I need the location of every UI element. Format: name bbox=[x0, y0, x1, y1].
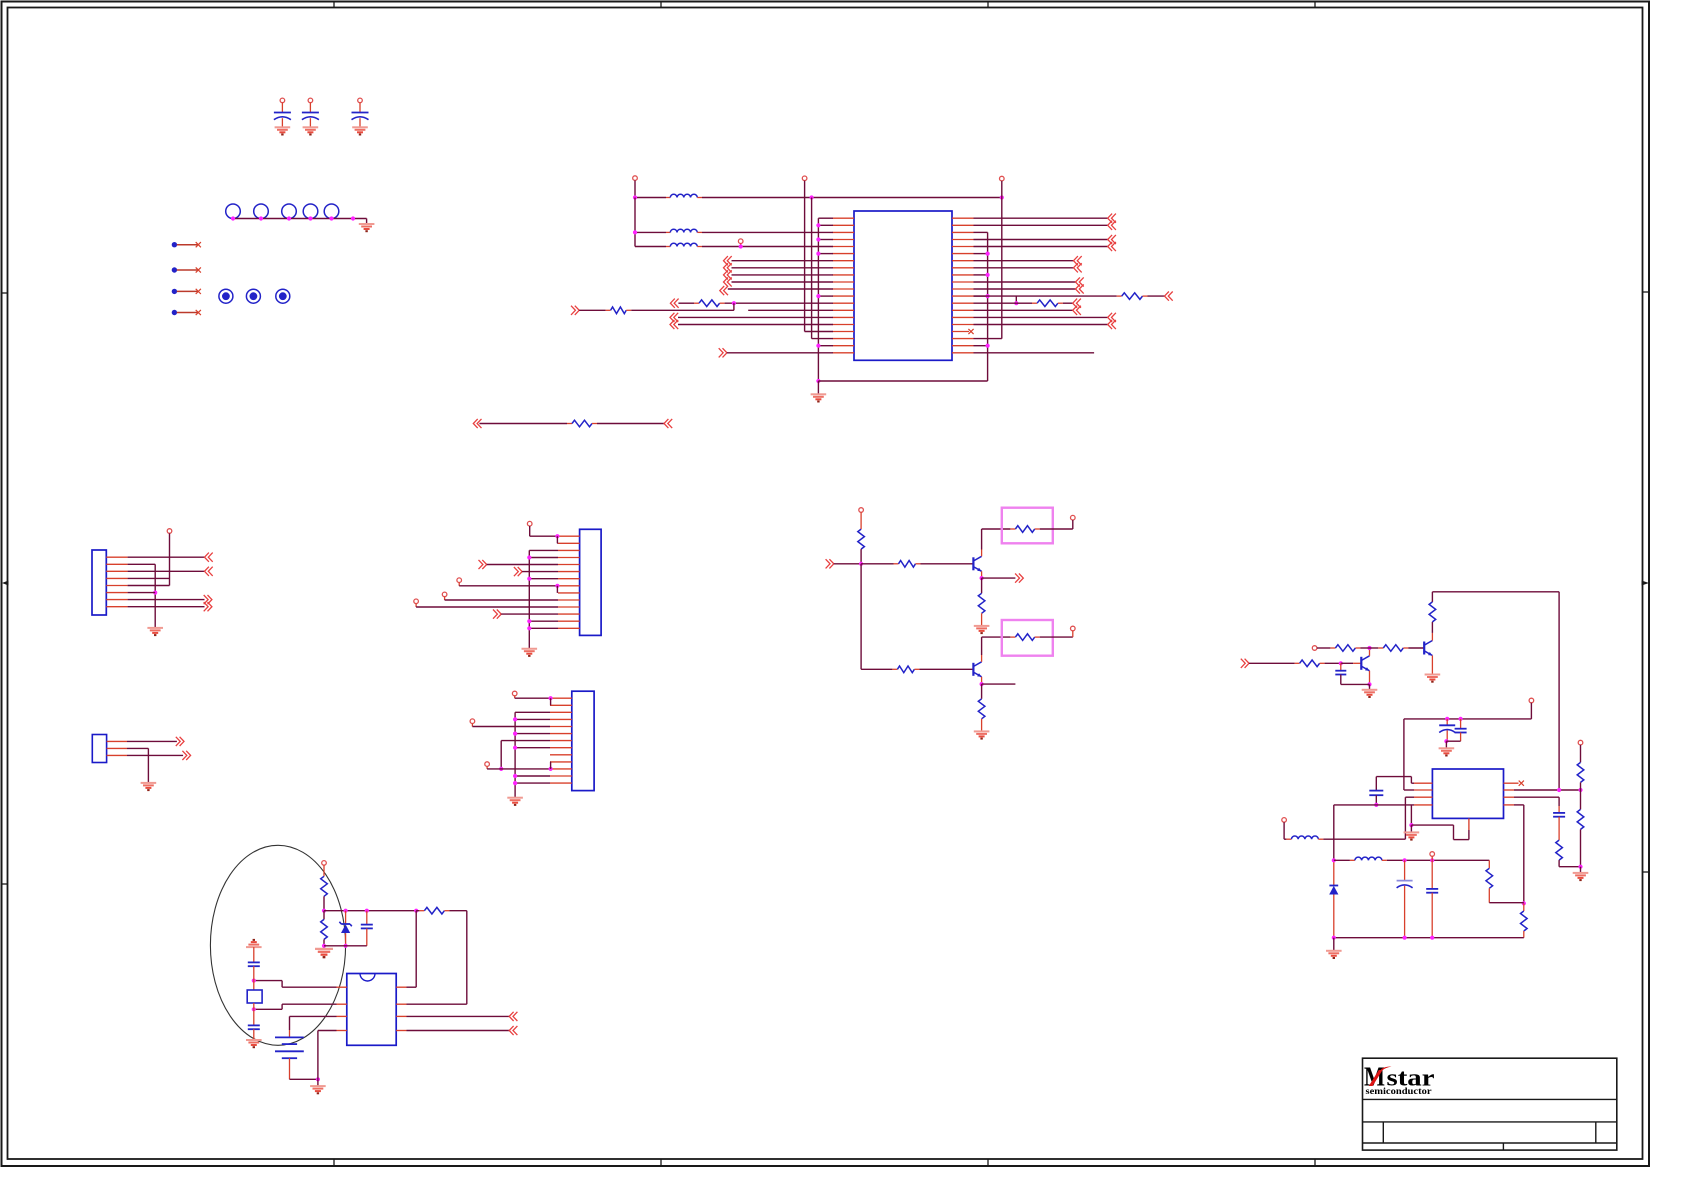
port chevron into U1 pin10 bbox=[724, 277, 732, 286]
J1 pin 7 stub bbox=[106, 599, 127, 601]
wire L5 to rail right bbox=[1387, 859, 1489, 861]
wire U2 pin4 left bbox=[1334, 804, 1414, 806]
ground of LC filter bbox=[1326, 951, 1342, 958]
U3 left pin 3 stub bbox=[337, 1015, 347, 1017]
inductor L3 bbox=[670, 243, 697, 246]
wire net1 to power VD stem bbox=[702, 197, 1002, 199]
port chevron into U1 pin11 bbox=[720, 286, 728, 295]
junction J2 pin8/pin9 bbox=[555, 584, 559, 588]
wire crystal bottom lead bbox=[253, 1003, 255, 1009]
power symbol VT bbox=[1578, 740, 1583, 745]
port end cross P3 bbox=[196, 289, 201, 294]
junction right bus pin39 bbox=[986, 344, 990, 348]
wire right bus bbox=[987, 232, 989, 381]
U2 right pin 7 stub bbox=[1504, 796, 1515, 798]
J2 pin 5 stub bbox=[558, 564, 580, 566]
title block line 3 bbox=[1363, 1142, 1617, 1144]
junction bottom rail/C15 bbox=[1430, 936, 1434, 940]
port wire P3 bbox=[177, 290, 198, 292]
junction rail/C14 bbox=[1403, 858, 1407, 862]
wire port to J2 pin12 bbox=[501, 613, 558, 615]
junction L5 rail left bbox=[1332, 858, 1336, 862]
J4 pin 2 stub bbox=[107, 747, 127, 749]
wire R10 stub b bbox=[914, 668, 919, 670]
no-connect x U1 pin37 bbox=[968, 329, 973, 334]
junction pin4 hook gnd bbox=[1409, 823, 1413, 827]
U1 right pin 24 stub bbox=[952, 239, 974, 241]
ground of mounting rail bbox=[359, 224, 375, 231]
wire corner down bbox=[466, 911, 468, 1005]
U3 left pin 2 stub bbox=[337, 1003, 347, 1005]
connector J3 body bbox=[572, 691, 594, 790]
wire R12 to ground bbox=[981, 719, 983, 732]
wire emitter to R12 bbox=[981, 684, 983, 699]
wire node to ground bbox=[1369, 684, 1371, 689]
resistor R14 bbox=[1335, 645, 1355, 652]
junction rail/U3 pin bbox=[414, 909, 418, 913]
wire Q4 collector to R16 bbox=[1431, 622, 1433, 633]
power symbol VW bbox=[1430, 852, 1435, 861]
capacitor C9 bbox=[248, 1025, 260, 1029]
wire VT stem bbox=[1580, 745, 1582, 763]
wire port to U1 pin10 bbox=[732, 281, 834, 283]
power pin of capacitor C1 bbox=[280, 98, 285, 112]
capacitor C10 bbox=[1439, 725, 1455, 732]
wire R10 to Q2 base bbox=[919, 668, 973, 670]
port chevron into U1 pin20 bbox=[719, 348, 727, 357]
mounting hole M5 bbox=[324, 204, 339, 219]
wire U2 pin2 join bbox=[1404, 789, 1414, 791]
junction J3 bus pin12 bbox=[513, 774, 517, 778]
wire U1 pin23 to bus bbox=[974, 231, 988, 233]
port chevron into U1 pin9 bbox=[724, 270, 732, 279]
wire bus to U1 pin1 bbox=[818, 217, 833, 219]
junction R1/R2 node bbox=[732, 301, 736, 305]
wire U1 pin28 out bbox=[974, 267, 1074, 269]
wire U1 pin24 out bbox=[974, 239, 1108, 241]
wire U2 pin6 out bbox=[1514, 789, 1581, 791]
wire C11 bottom lead bbox=[1460, 733, 1462, 742]
wire R5 left bbox=[479, 423, 567, 425]
J2 pin 7 stub bbox=[558, 578, 580, 580]
title block outer box bbox=[1363, 1058, 1617, 1150]
junction rail/C7 bbox=[365, 909, 369, 913]
port chevron J2 pin12 bbox=[493, 610, 501, 619]
wire emitter port out bbox=[982, 577, 1016, 579]
junction at M5 bbox=[329, 216, 333, 220]
U1 right pin 25 stub bbox=[952, 246, 974, 248]
junction VC bbox=[739, 244, 743, 248]
wire drop to U1 pin18 bbox=[812, 338, 833, 340]
U2 right pin 6 stub bbox=[1504, 789, 1515, 791]
wire U1 pin32 to bus bbox=[974, 295, 988, 297]
junction pin7 link bbox=[499, 767, 503, 771]
wire R20 bottom bbox=[1523, 931, 1525, 938]
wire U1 pin30 out bbox=[974, 281, 1076, 283]
wire bottom pin riser bbox=[1453, 825, 1455, 840]
wire U2 pin8 out bbox=[1514, 804, 1524, 806]
power symbol VQ bbox=[1312, 646, 1317, 651]
wire to R20 bbox=[1523, 903, 1525, 911]
resistor R19 bbox=[1577, 809, 1584, 829]
border zone tick left y=293 bbox=[2, 292, 8, 294]
port chevron U1 pin27 bbox=[1074, 256, 1082, 265]
resistor R23 bbox=[424, 907, 444, 914]
wire J1 pin3 out bbox=[128, 570, 205, 572]
U1 left pin 8 stub bbox=[833, 267, 855, 269]
wire gnd node stem bbox=[1580, 867, 1582, 873]
wire BT1 top lead bbox=[289, 1030, 291, 1037]
junction at M1 bbox=[231, 216, 235, 220]
wire L6 to U2 pin3 net bbox=[1323, 838, 1405, 840]
wire R6 to node bbox=[860, 549, 862, 564]
J1 pin 1 stub bbox=[106, 556, 127, 558]
wire R13 to Q3 base bbox=[1325, 662, 1341, 664]
junction J2 bus pin13 bbox=[527, 619, 531, 623]
border zone tick top x=1315 bbox=[1314, 2, 1316, 8]
wire Q2 emitter down bbox=[981, 677, 983, 684]
wire VJ to J3 pin1 bbox=[515, 697, 550, 699]
power symbol VO bbox=[1071, 515, 1076, 520]
border zone tick top x=988 bbox=[987, 2, 989, 8]
resistor R3 bbox=[1122, 293, 1143, 300]
title block line 2 bbox=[1363, 1121, 1617, 1123]
transistor Q1 bbox=[973, 556, 981, 571]
wire D2 bottom lead bbox=[1333, 895, 1335, 938]
resistor R5 bbox=[572, 420, 592, 427]
wire J3 bus to pin8 bbox=[515, 747, 550, 749]
wire gnd node stem bbox=[317, 1079, 319, 1086]
junction C10/C11 gnd bbox=[1444, 739, 1448, 743]
U1 right pin 33 stub bbox=[952, 302, 974, 304]
wire C1 to ground bbox=[281, 118, 283, 127]
wire R15 stub a bbox=[1378, 647, 1383, 649]
U1 right pin 27 stub bbox=[952, 260, 974, 262]
wire J3 bus to pin6 bbox=[515, 733, 550, 735]
junction J3 bus pin13 bbox=[513, 781, 517, 785]
wire J1 pin1 out bbox=[128, 556, 205, 558]
junction J3 bus pin6 bbox=[513, 732, 517, 736]
wire bus to U1 pin12 bbox=[818, 295, 833, 297]
wire net1 stub left of L1 bbox=[666, 197, 670, 199]
wire C12 top lead bbox=[1375, 777, 1377, 791]
junction left bus pin4 bbox=[816, 237, 820, 241]
wire port to R1 bbox=[579, 309, 605, 311]
U3 right pin 8 stub bbox=[396, 1030, 406, 1032]
port chevron Q1 base in bbox=[826, 559, 834, 568]
U3 left pin 4 stub bbox=[337, 1030, 347, 1032]
wire VA column bbox=[634, 198, 636, 247]
wire U1 pin31 out bbox=[974, 288, 1076, 290]
wire net1 drop to pin18 bbox=[811, 198, 813, 339]
ground of J4 bbox=[141, 783, 157, 790]
J3 pin 9 stub bbox=[550, 754, 572, 756]
wire VK stem bbox=[471, 724, 473, 727]
wire R7 to Q1 base bbox=[921, 563, 974, 565]
junction right bus pin32 bbox=[986, 294, 990, 298]
port chevron R2 input bbox=[670, 299, 678, 308]
junction R24/gnd rail bbox=[322, 944, 326, 948]
U1 left pin 7 stub bbox=[833, 260, 855, 262]
test point TP2 bbox=[246, 289, 260, 303]
port chevron R3 out bbox=[1165, 292, 1173, 301]
power symbol VC bbox=[738, 239, 743, 244]
junction D1/gnd rail bbox=[344, 944, 348, 948]
ground under Q2 bbox=[974, 731, 990, 738]
junction R22 node bbox=[322, 909, 326, 913]
J3 pin 11 stub bbox=[550, 768, 572, 770]
pink box RB1 bbox=[1002, 508, 1053, 544]
wire J1 pin5 out bbox=[128, 585, 170, 587]
U1 right pin 31 stub bbox=[952, 288, 974, 290]
wire U1 pin22 out bbox=[974, 224, 1108, 226]
wire node to R15 bbox=[1370, 647, 1379, 649]
wire R14 stub a bbox=[1330, 647, 1335, 649]
port chevron U1 pin35 bbox=[1108, 313, 1116, 322]
wire VU stem bbox=[323, 865, 325, 876]
wire left bus bbox=[817, 218, 819, 381]
U1 left pin 13 stub bbox=[833, 302, 855, 304]
wire C15 top lead bbox=[1431, 860, 1433, 889]
wire pin10 up link bbox=[550, 762, 552, 769]
U2 right pin 5 stub (NC) bbox=[1504, 782, 1519, 784]
port chevron Q1 emitter bbox=[1015, 574, 1023, 583]
J3 pin 1 stub bbox=[550, 697, 572, 699]
U1 left pin 11 stub bbox=[833, 288, 855, 290]
transistor Q2 bbox=[973, 662, 981, 677]
port chevron J1 pin8 bbox=[204, 602, 212, 611]
junction J2 bus pin14 bbox=[527, 626, 531, 630]
wire L2 stub b bbox=[697, 231, 702, 233]
wire U1 pin35 out bbox=[974, 316, 1108, 318]
J2 pin 4 stub bbox=[558, 557, 580, 559]
wire C6 top lead bbox=[1340, 663, 1342, 670]
port chevron R1 input bbox=[571, 306, 579, 315]
wire port to U1 pin9 bbox=[732, 274, 834, 276]
wire R7 stub a bbox=[894, 563, 899, 565]
wire pin8 down bbox=[1523, 805, 1525, 904]
resistor R24 bbox=[321, 919, 328, 939]
wire C11 top lead bbox=[1460, 719, 1462, 729]
wire J1 pin8 out bbox=[128, 606, 205, 608]
IC U3 body bbox=[347, 974, 396, 1046]
wire pin1 to crystal top bbox=[254, 980, 282, 982]
J3 pin 4 stub bbox=[550, 718, 572, 720]
J2 pin 14 stub bbox=[558, 627, 580, 629]
wire VH stem bbox=[444, 597, 446, 600]
wire R5 stub a bbox=[567, 423, 572, 425]
wire pin2 corner down bbox=[281, 1004, 283, 1009]
diode D2 bbox=[1329, 886, 1338, 895]
wire C13 top stub bbox=[1558, 806, 1560, 813]
wire R3 stub b bbox=[1143, 295, 1148, 297]
wire rail to R23 bbox=[416, 910, 419, 912]
wire VV corner bbox=[1284, 838, 1286, 840]
wire port to U1 pin16 bbox=[678, 324, 833, 326]
wire rail to L5 bbox=[1334, 859, 1350, 861]
wire net1 stub right of L1 bbox=[697, 197, 702, 199]
capacitor C7 bbox=[361, 925, 373, 929]
wire into U1 pin14 bbox=[748, 309, 833, 311]
capacitor C2 bbox=[302, 113, 319, 120]
wire U3 pin2 left bbox=[282, 1003, 336, 1005]
wire R15 to Q4 base bbox=[1408, 647, 1424, 649]
J3 pin 7 stub bbox=[550, 740, 572, 742]
power pin of capacitor C2 bbox=[308, 98, 313, 112]
junction rail C11 bbox=[1459, 717, 1463, 721]
transistor Q3 bbox=[1361, 656, 1369, 671]
wire VG stem bbox=[458, 583, 460, 586]
mounting hole M1 bbox=[226, 204, 241, 219]
wire R9 to ground bbox=[981, 613, 983, 626]
wire net1 row bbox=[635, 197, 666, 199]
connector J4 body bbox=[92, 735, 106, 763]
wire R17 to gnd node bbox=[1559, 866, 1580, 868]
wire Q2 collector up bbox=[981, 637, 983, 655]
wire VI to J2 pin11 bbox=[416, 606, 558, 608]
wire C2 to ground bbox=[309, 118, 311, 127]
junction Q1 base node bbox=[859, 562, 863, 566]
J2 pin 6 stub bbox=[558, 571, 580, 573]
port dot P3 bbox=[172, 289, 177, 294]
wire hook gnd stem bbox=[1410, 825, 1412, 832]
ground right column bbox=[1573, 873, 1589, 880]
wire bus to U1 pin6 bbox=[818, 253, 833, 255]
wire R24 to gnd rail bbox=[323, 939, 325, 949]
inductor L2 bbox=[670, 229, 697, 232]
wire R23 stub b bbox=[444, 910, 449, 912]
ground above C8 (inverted) bbox=[246, 940, 262, 947]
wire J2 bus to pin4 bbox=[529, 557, 558, 559]
junction at M3 bbox=[287, 216, 291, 220]
wire port to U1 pin15 bbox=[678, 316, 833, 318]
power symbol VV bbox=[1282, 818, 1287, 823]
power symbol VP bbox=[1071, 626, 1076, 631]
title block line 1 bbox=[1363, 1098, 1617, 1100]
junction left bus pin6 bbox=[816, 252, 820, 256]
border center arrow right bbox=[1642, 581, 1650, 586]
U3 right pin 6 stub bbox=[396, 1003, 406, 1005]
wire R10 stub a bbox=[892, 668, 897, 670]
wire port to J2 pin5 bbox=[487, 564, 558, 566]
wire C3 to ground bbox=[359, 118, 361, 127]
wire C10 top lead bbox=[1446, 719, 1448, 725]
ground under BT1 bbox=[310, 1086, 326, 1093]
junction at M2 bbox=[259, 216, 263, 220]
wire L3 stub a bbox=[666, 246, 670, 248]
wire pin1-pin2 link bbox=[556, 536, 558, 543]
junction BT1 gnd node bbox=[316, 1077, 320, 1081]
ground of U1 bus bbox=[811, 394, 827, 401]
test point TP3 bbox=[276, 289, 290, 303]
wire R2 stub a bbox=[694, 302, 699, 304]
port chevron U1 pin25 bbox=[1108, 242, 1116, 251]
wire R24 below node bbox=[323, 911, 325, 920]
main IC U1 body bbox=[854, 211, 952, 360]
capacitor C15 bbox=[1426, 889, 1438, 893]
J1 pin 5 stub bbox=[106, 585, 127, 587]
U2 left pin 4 stub bbox=[1414, 804, 1432, 806]
wire R16 top bbox=[1431, 592, 1433, 602]
J2 pin 2 stub bbox=[558, 542, 580, 544]
port chevron U1 pin31 bbox=[1076, 284, 1084, 293]
resistor R11 in box bbox=[1015, 634, 1034, 641]
power symbol VB bbox=[802, 176, 807, 181]
resistor R10 bbox=[897, 666, 914, 673]
wire crystal top lead bbox=[253, 981, 255, 990]
wire rail down to U2 pin L2 bbox=[1403, 719, 1405, 790]
wire L3 to U1 pin5 bbox=[702, 246, 833, 248]
wire R7 stub b bbox=[916, 563, 921, 565]
port chevron U1 pin24 bbox=[1108, 235, 1116, 244]
junction gnd node bbox=[1578, 865, 1582, 869]
U1 right pin 30 stub bbox=[952, 281, 974, 283]
border zone tick bottom x=1315 bbox=[1314, 1159, 1316, 1166]
wire Q2 emitter stub out bbox=[982, 683, 1016, 685]
wire Q3 emitter down bbox=[1369, 671, 1371, 685]
junction J3 bus pin4 bbox=[513, 717, 517, 721]
wire R1 stub b bbox=[626, 309, 631, 311]
junction VT/pin6 bbox=[1578, 788, 1582, 792]
power pin of capacitor C3 bbox=[358, 98, 363, 112]
wire R21 to pin8 column bbox=[1489, 902, 1524, 904]
resistor R6 bbox=[858, 529, 865, 549]
power symbol VG bbox=[457, 578, 462, 583]
J3 pin 5 stub bbox=[550, 726, 572, 728]
wire U3 pin4 left bbox=[318, 1030, 337, 1032]
resistor R16 bbox=[1429, 602, 1436, 622]
wire VV stem bbox=[1283, 822, 1285, 839]
junction left bus pin12 bbox=[816, 294, 820, 298]
port chevron into U1 pin15 bbox=[670, 313, 678, 322]
wire VL to J3 pin11 bbox=[487, 768, 550, 770]
wire rail corner down bbox=[366, 219, 368, 225]
U2 bottom pin stub bbox=[1468, 818, 1470, 830]
wire U2 pin3 down bbox=[1404, 797, 1406, 839]
wire port to node bbox=[834, 563, 861, 565]
wire L6 stub b bbox=[1318, 838, 1323, 840]
inductor L1 bbox=[670, 194, 697, 197]
wire C8 top lead bbox=[253, 947, 255, 962]
wire hook to bottom pin bbox=[1411, 824, 1453, 826]
U1 right pin 29 stub bbox=[952, 274, 974, 276]
test point TP1 bbox=[219, 289, 233, 303]
wire link into pin10 bbox=[549, 761, 552, 763]
wire pin8-pin9 link bbox=[556, 586, 558, 593]
title block divider c bbox=[1502, 1143, 1504, 1150]
wire power VD down bbox=[1001, 181, 1003, 339]
wire bottom rail gnd stem bbox=[1333, 938, 1335, 951]
junction rail/D1 bbox=[344, 909, 348, 913]
wire U1 pin32 out bbox=[974, 295, 1117, 297]
junction J2 bus pin4 bbox=[527, 555, 531, 559]
U1 right pin 23 stub bbox=[952, 231, 974, 233]
U3 notch bbox=[360, 974, 375, 982]
power symbol VU bbox=[322, 861, 327, 866]
wire R23 to corner bbox=[449, 910, 466, 912]
wire U1 pin27 out bbox=[974, 260, 1074, 262]
wire RB1 stub b bbox=[1035, 528, 1040, 530]
wire C12 bottom lead bbox=[1375, 795, 1377, 805]
wire node down to Q2 bbox=[860, 564, 862, 670]
port chevron R4 out bbox=[1073, 299, 1081, 308]
port chevron U1 pin22 bbox=[1108, 221, 1116, 230]
U3 right pin 5 stub bbox=[396, 986, 406, 988]
power symbol VJ bbox=[512, 691, 517, 696]
resistor R22 bbox=[321, 876, 328, 896]
power symbol VI bbox=[414, 599, 419, 604]
junction left bus pin2 bbox=[816, 223, 820, 227]
